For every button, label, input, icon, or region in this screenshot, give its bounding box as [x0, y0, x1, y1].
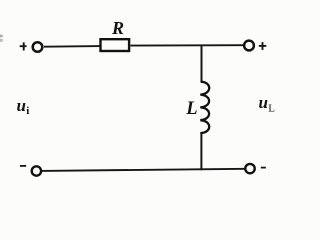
terminal plus sign (input top) [20, 42, 27, 50]
svg-text:u: u [259, 93, 268, 112]
output bottom terminal [245, 164, 254, 173]
inductor L1 coil [200, 82, 209, 133]
terminal minus sign (output bottom) [261, 167, 266, 169]
label u_i (input voltage) [17, 96, 30, 117]
wire top-left [44, 45, 100, 48]
input bottom terminal [32, 166, 41, 175]
svg-text:R: R [111, 18, 124, 38]
svg-text:u: u [17, 96, 26, 115]
wire inductor top lead [201, 45, 203, 82]
wire inductor bottom lead [200, 133, 202, 171]
terminal minus sign (input bottom) [20, 165, 26, 167]
svg-text:i: i [26, 105, 29, 117]
input top terminal [33, 42, 43, 52]
label u_L (output voltage) [259, 93, 276, 114]
wire bottom [42, 169, 246, 171]
stray scan artifact at left margin [0, 34, 3, 42]
svg-text:L: L [185, 99, 197, 119]
wire top-right [131, 44, 245, 46]
terminal plus sign (output top) [259, 42, 267, 50]
svg-text:L: L [268, 103, 275, 115]
output top terminal [244, 41, 254, 51]
resistor R1 [101, 39, 130, 51]
